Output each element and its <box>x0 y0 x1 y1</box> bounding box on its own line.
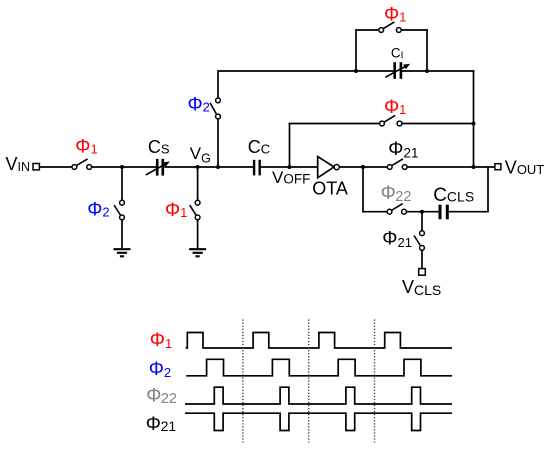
node C junction (CI left) <box>354 69 358 73</box>
capacitor CS (variable, sampling cap) <box>157 159 163 176</box>
wire S2 to ground <box>121 220 123 248</box>
wire CS to CC via node VG <box>164 166 253 168</box>
feedback wire top-left segment <box>217 70 357 72</box>
waveform phi21 trace <box>185 413 452 430</box>
wire S3 to ground <box>197 220 199 248</box>
node E junction on rail <box>472 122 476 126</box>
output terminal VOUT <box>495 164 501 170</box>
capacitor CCLS (level-shift cap) <box>440 205 447 220</box>
switch S7 phi21 (output connect) <box>387 159 407 170</box>
wire S8 to node G <box>406 211 438 213</box>
switch S4 phi2 (feedback reset path) <box>210 98 220 119</box>
waveform phi1 trace <box>186 333 452 349</box>
switch S3 phi1 (VG to ground) <box>190 200 200 220</box>
wire OTA output to switch S7 <box>339 166 387 168</box>
wire VG down to switch S3 <box>197 167 199 200</box>
dotted timing divider 3 <box>374 320 376 443</box>
wire node B up to switch S4 <box>217 119 219 167</box>
wire bracket left up <box>355 29 357 72</box>
feedback wire CI to node D <box>402 70 428 72</box>
svg-text:OTA: OTA <box>312 179 348 199</box>
ground symbol below S2 <box>114 249 131 256</box>
CLS branch wire right <box>449 211 489 213</box>
wire node A down to switch S2 <box>121 167 123 200</box>
svg-text:CCLS: CCLS <box>433 185 474 206</box>
op-amp U1 output inversion bubble <box>334 165 339 170</box>
wire bracket top-right <box>401 29 428 31</box>
node VG junction <box>196 165 200 169</box>
feedback wire to CI <box>356 70 394 72</box>
op-amp U1 OTA triangle <box>318 157 334 178</box>
wire CC to OTA input <box>261 166 318 168</box>
capacitor CI (variable, integration cap) <box>395 62 401 79</box>
CLS branch wire left <box>362 211 387 213</box>
switch S1 phi1 (input sampling) <box>72 159 92 170</box>
node B junction (feedback tap) <box>216 165 220 169</box>
wire S1 to node A <box>92 166 156 168</box>
wire S4 up to feedback line <box>217 72 219 98</box>
wire VIN to switch S1 <box>39 166 72 168</box>
dotted timing divider 1 <box>242 320 244 443</box>
waveform phi22 trace <box>185 387 452 404</box>
input terminal VIN <box>33 164 39 170</box>
switch S8 phi22 (CLS sampling) <box>387 204 406 215</box>
arrow through CI <box>385 64 410 78</box>
switch S6 phi1 (offset sampling) <box>380 115 402 126</box>
wire bracket right down <box>426 29 428 72</box>
node A junction <box>120 165 124 169</box>
switch S9 phi21 (to VCLS) <box>414 231 424 251</box>
output rail wire <box>473 70 475 168</box>
wire VOFF up <box>289 123 291 167</box>
capacitor CC (coupling cap) <box>254 160 260 176</box>
node VOUT junction <box>472 165 476 169</box>
wire node G down to switch S9 <box>421 212 423 231</box>
switch S5 phi1 (CI reset) <box>379 22 401 33</box>
wire node F down to CLS branch <box>362 167 364 213</box>
terminal VCLS <box>419 269 426 276</box>
node F junction (OTA output) <box>361 165 365 169</box>
wire bracket top-left <box>355 29 379 31</box>
node G junction (CLS tap) <box>420 210 424 214</box>
ground symbol below S3 <box>189 249 206 256</box>
waveform phi2 trace <box>186 359 452 376</box>
wire VOFF-line to switch S6 <box>289 123 380 125</box>
dotted timing divider 2 <box>308 320 310 443</box>
arrow through CS <box>146 162 170 175</box>
wire S9 to VCLS terminal <box>421 250 423 268</box>
node VOFF junction <box>288 165 292 169</box>
wire S6 to output rail <box>402 123 475 125</box>
switch S2 phi2 (to ground) <box>114 200 124 220</box>
wire S7 to output rail <box>407 166 473 168</box>
CLS branch riser to VOUT net <box>487 166 489 211</box>
feedback wire to output rail <box>426 70 474 72</box>
svg-text:VOFF: VOFF <box>272 168 310 187</box>
wire rail to VOUT terminal <box>474 166 495 168</box>
node D junction (CI right) <box>425 69 429 73</box>
